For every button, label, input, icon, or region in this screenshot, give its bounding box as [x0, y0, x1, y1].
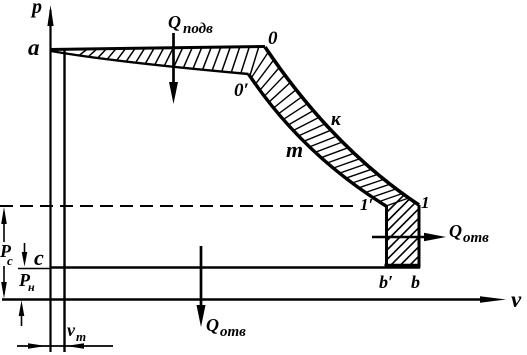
dashed line to 1' [0, 205, 357, 207]
svg-text:Q: Q [168, 12, 181, 32]
svg-text:v: v [67, 320, 76, 340]
svg-text:0′: 0′ [234, 80, 249, 101]
svg-text:1: 1 [421, 193, 430, 212]
wire: lower wedge line a-0' [51, 51, 249, 74]
wire: top line a-0 [50, 47, 265, 50]
svg-text:m: m [76, 329, 86, 344]
svg-text:н: н [28, 280, 35, 294]
p axis (vertical) [49, 10, 51, 352]
wire: strip right edge 1-b [418, 205, 421, 267]
svg-text:b: b [411, 272, 420, 292]
svg-text:Q: Q [449, 221, 462, 241]
wire: strip bottom b'-b [385, 264, 421, 268]
svg-text:b′: b′ [379, 272, 393, 292]
svg-text:отв: отв [220, 324, 246, 340]
hatched cycle region [79, 46, 420, 299]
Q_otv arrow (heat out, right) [372, 236, 430, 239]
svg-text:m: m [286, 137, 303, 162]
Q_otv arrow (heat out, bottom) [200, 246, 203, 310]
P_n lower outside arrow [21, 306, 23, 326]
svg-text:к: к [331, 109, 342, 130]
curve k: 0-1 [265, 47, 419, 205]
wire: thin tick extension left of c [18, 268, 50, 270]
svg-text:p: p [30, 0, 42, 18]
svg-text:с: с [7, 253, 13, 268]
v axis (horizontal) [2, 298, 486, 300]
svg-text:1′: 1′ [360, 195, 373, 214]
svg-text:a: a [28, 35, 40, 60]
svg-text:отв: отв [463, 230, 489, 246]
svg-text:Q: Q [206, 315, 219, 335]
P_c dimension arrow (left) [3, 212, 5, 242]
curve m: 0'-1' [249, 74, 387, 206]
svg-text:подв: подв [183, 21, 213, 37]
wire: bottom cycle line c-b' [50, 266, 420, 269]
wire: strip left edge 1'-b' [385, 206, 388, 267]
svg-text:v: v [511, 287, 522, 312]
P_n upper outside arrow [24, 243, 26, 261]
svg-text:c: c [34, 245, 44, 270]
wire: v_m vertical marker line [63, 50, 65, 352]
v_m dimension line [17, 345, 113, 347]
svg-text:0: 0 [268, 28, 278, 49]
Q_podv arrow (heat in, top) [172, 33, 175, 86]
